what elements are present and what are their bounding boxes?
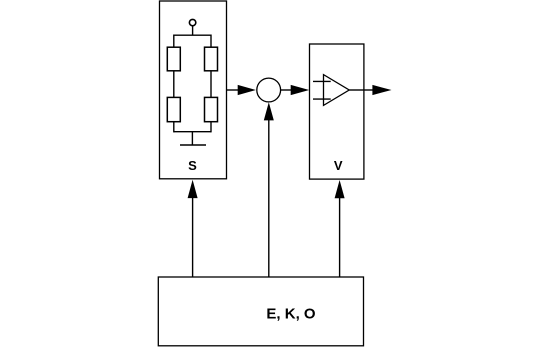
svg-text:V: V xyxy=(334,158,343,173)
op-amp U1 (amplifier triangle) xyxy=(324,75,350,106)
op-amp input line (upper) xyxy=(313,80,331,82)
wire summing junction to V xyxy=(281,89,292,91)
resistor R3 (bridge lower-left) xyxy=(167,97,180,121)
resistor R1 (bridge upper-left) xyxy=(167,47,180,71)
arrowhead output xyxy=(372,85,391,95)
arrowhead into S bottom xyxy=(188,180,198,198)
wire (bridge bottom bar) xyxy=(174,131,211,133)
wire (bridge top bar) xyxy=(174,34,211,36)
arrowhead into V bottom xyxy=(335,180,345,198)
arrowhead into summing junction bottom xyxy=(264,102,274,120)
wire output of V xyxy=(364,89,374,91)
wire op-amp output xyxy=(349,89,364,91)
wire E,K,O to S xyxy=(192,197,194,277)
wire (left lower leg) xyxy=(173,122,175,133)
svg-text:E, K, O: E, K, O xyxy=(266,306,316,323)
wire S to summing junction xyxy=(226,89,239,91)
block S (sensor bridge box) xyxy=(160,1,227,179)
wire (left upper leg) xyxy=(173,35,175,48)
wire E,K,O to summing junction xyxy=(268,120,270,277)
wire (terminal stem) xyxy=(192,26,194,35)
wire (right mid leg) xyxy=(210,71,212,98)
summing junction node xyxy=(257,78,281,102)
svg-text:S: S xyxy=(188,158,197,173)
wire (right lower leg) xyxy=(210,122,212,133)
op-amp input line (lower) xyxy=(313,98,331,100)
wire (left mid leg) xyxy=(173,71,175,98)
resistor R4 (bridge lower-right) xyxy=(205,97,218,121)
wire (right upper leg) xyxy=(210,35,212,48)
terminal circle (bridge supply) xyxy=(189,19,195,25)
arrowhead into amplifier block V xyxy=(291,85,310,95)
arrowhead into summing junction (from S) xyxy=(238,85,256,95)
wire E,K,O to V xyxy=(339,198,341,278)
ground bar xyxy=(180,144,206,146)
ground stem xyxy=(191,132,193,145)
block E,K,O (influence quantities box) xyxy=(158,277,363,346)
block V (amplifier box) xyxy=(310,44,364,179)
resistor R2 (bridge upper-right) xyxy=(205,47,218,71)
